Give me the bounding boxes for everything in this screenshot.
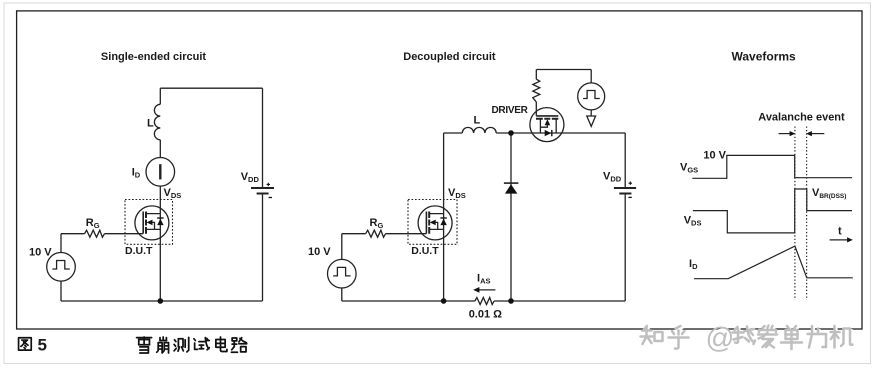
svg-text:DRIVER: DRIVER: [492, 105, 529, 116]
svg-text:Single-ended circuit: Single-ended circuit: [101, 51, 206, 63]
svg-text:L: L: [474, 115, 481, 127]
svg-text:Avalanche event: Avalanche event: [758, 112, 845, 124]
svg-text:t: t: [838, 226, 842, 238]
svg-text:L: L: [147, 118, 154, 130]
svg-text:Decoupled circuit: Decoupled circuit: [403, 51, 496, 63]
svg-text:Waveforms: Waveforms: [731, 50, 796, 64]
svg-text:5: 5: [38, 336, 47, 355]
svg-text:10 V: 10 V: [29, 247, 52, 259]
svg-text:10 V: 10 V: [308, 246, 331, 258]
svg-text:@: @: [706, 323, 735, 355]
svg-text:0.01 Ω: 0.01 Ω: [469, 309, 502, 321]
svg-text:D.U.T: D.U.T: [125, 245, 153, 257]
svg-text:10 V: 10 V: [703, 150, 726, 162]
svg-text:D.U.T: D.U.T: [411, 245, 439, 257]
